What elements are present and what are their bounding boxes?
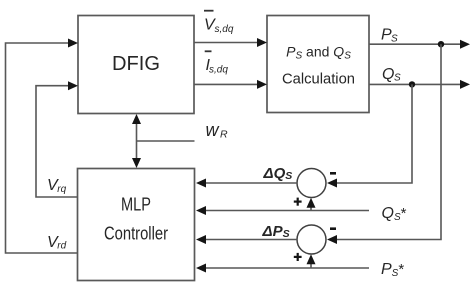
svg-text:Calculation: Calculation — [282, 71, 355, 88]
block DFIG — [78, 16, 194, 114]
svg-text:rq: rq — [57, 184, 66, 195]
svg-text:w: w — [206, 120, 220, 140]
svg-text:Q: Q — [382, 66, 394, 83]
svg-text:S: S — [391, 33, 398, 44]
wire Vrd MLP to DFIG — [6, 43, 78, 253]
label Vs,dq with bar — [204, 10, 214, 12]
wire wR stub — [137, 140, 195, 142]
block Ps and Qs Calculation — [267, 16, 369, 113]
svg-text:S: S — [394, 73, 401, 84]
svg-text:QS*: QS* — [382, 205, 407, 223]
wire wR double arrow between DFIG and MLP — [136, 121, 138, 161]
junction node on Qs — [409, 81, 415, 87]
svg-text:R: R — [220, 129, 228, 141]
wire Qs* reference into MLP — [205, 210, 369, 212]
summing junction sum2 (dPs) — [297, 225, 326, 254]
wire Ps feedback down to sum2 — [336, 44, 441, 239]
wire Is,dq DFIG to Calculation — [194, 83, 258, 85]
wire Qs feedback down to sum1 — [336, 84, 412, 183]
svg-text:ΔPS: ΔPS — [262, 223, 290, 240]
plus sign sum2 — [294, 256, 302, 258]
wire dQs sum1 to MLP — [205, 182, 297, 184]
wire Ps* branch up into sum2 — [310, 263, 312, 269]
minus sign sum2 — [330, 227, 336, 230]
wire dPs sum2 to MLP — [205, 239, 297, 241]
svg-text:DFIG: DFIG — [112, 53, 160, 75]
wire Qs* branch up into sum1 — [310, 206, 312, 211]
plus sign sum1 — [294, 201, 302, 203]
svg-text:s,dq: s,dq — [209, 65, 228, 76]
wire Ps* reference into MLP — [205, 267, 369, 269]
svg-text:s,dq: s,dq — [215, 24, 234, 35]
minus sign sum1 — [330, 172, 336, 175]
block MLP Controller — [78, 169, 195, 281]
wire Qs output — [369, 83, 461, 85]
svg-text:MLP: MLP — [121, 195, 151, 215]
wire Vrq MLP to DFIG — [36, 86, 78, 197]
label Is,dq with bar — [205, 50, 212, 52]
svg-text:rd: rd — [57, 241, 66, 252]
wire Vs,dq DFIG to Calculation — [194, 42, 258, 44]
summing junction sum1 (dQs) — [297, 169, 326, 198]
svg-text:PS*: PS* — [381, 261, 404, 279]
svg-text:Controller: Controller — [104, 224, 168, 244]
svg-text:ΔQS: ΔQS — [263, 165, 293, 182]
junction node on Ps — [438, 41, 444, 47]
wire Ps output — [369, 43, 461, 45]
